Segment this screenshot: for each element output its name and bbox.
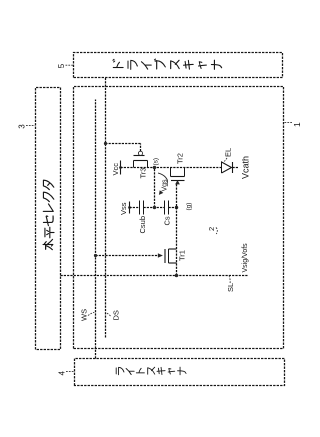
Tr1 gate arrow	[158, 253, 163, 257]
label 1 (pixel array)	[285, 122, 303, 127]
drive scanner text	[113, 59, 222, 69]
Tr3 gate bubble (PMOS)	[138, 151, 142, 155]
Vss terminal bar	[129, 202, 131, 214]
Tr2 gate arrow	[175, 180, 180, 184]
WS leader	[88, 312, 94, 315]
transistor Tr3	[106, 144, 148, 179]
svg-text:4: 4	[58, 371, 67, 376]
Tr3 gate bar	[134, 155, 145, 157]
transistor Tr2 (drive transistor)	[171, 153, 185, 184]
Tr3 channel region	[134, 161, 148, 168]
EL cathode bar	[232, 162, 234, 173]
Vss junction dot	[128, 206, 131, 209]
Tr3 gate lead wire to DS line	[106, 144, 141, 152]
svg-text:Vss: Vss	[119, 202, 128, 215]
svg-text:Tr1: Tr1	[178, 250, 187, 261]
node g wire	[176, 184, 178, 276]
junction WS / Tr1 gate	[94, 254, 97, 257]
label 4 (write scanner)	[58, 371, 74, 376]
label WS (write scan net)	[80, 309, 95, 321]
svg-text:WS: WS	[80, 309, 89, 321]
Vcc junction dot	[119, 166, 122, 169]
svg-text:SL: SL	[226, 283, 235, 292]
svg-text:(g): (g)	[186, 203, 193, 211]
horizontal selector text	[43, 180, 54, 249]
svg-text:Tr2: Tr2	[176, 153, 185, 164]
label 5 (drive scanner)	[57, 63, 73, 68]
EL cathode wire to Vcath	[233, 167, 239, 169]
EL anode triangle	[222, 162, 232, 173]
Vcc terminal bar	[120, 161, 122, 175]
junction g-wire / storage line	[175, 206, 178, 209]
transistor Tr1	[96, 249, 187, 263]
label DS (drive scan net)	[107, 310, 121, 320]
Vgs annotation	[158, 173, 169, 195]
label SL (signal line net)	[226, 276, 235, 292]
drive scanner box 5	[74, 53, 283, 78]
signal line SL	[61, 275, 249, 277]
SL leader	[229, 276, 230, 283]
svg-text:EL: EL	[224, 148, 233, 157]
label 4 leader	[66, 371, 74, 373]
node s junction dot	[153, 166, 156, 169]
horizontal selector box 3	[36, 88, 61, 350]
Cs plates	[165, 201, 169, 215]
Tr1 channel region	[169, 249, 177, 263]
capacitor Cs (storage)	[163, 201, 172, 226]
svg-text:Tr3: Tr3	[139, 168, 148, 179]
svg-text:Vcc: Vcc	[111, 163, 120, 176]
svg-text:2: 2	[207, 227, 216, 231]
EL label leader	[224, 158, 227, 162]
svg-text:Csub: Csub	[138, 216, 147, 234]
Csub plates	[140, 201, 144, 215]
DS leader	[107, 313, 111, 316]
write scanner text	[116, 367, 186, 375]
Vcc power terminal	[111, 161, 122, 176]
power wire from Vcc to EL anode	[121, 167, 222, 169]
write scanner box 4	[75, 359, 285, 386]
label 5 leader	[66, 64, 74, 66]
svg-text:5: 5	[57, 63, 66, 68]
label 3 (horizontal selector)	[18, 124, 36, 129]
svg-text:Vcath: Vcath	[241, 156, 251, 179]
Vss power terminal	[119, 202, 131, 216]
pixel array box 1	[74, 87, 284, 349]
scan line DS	[105, 78, 107, 338]
Tr1 gate bar	[164, 249, 166, 263]
scan line WS	[95, 100, 97, 359]
junction DS / Tr3 gate	[104, 142, 107, 145]
capacitor Csub	[138, 201, 147, 234]
node s wire	[154, 168, 156, 208]
label 2 (pixel circuit)	[207, 227, 217, 234]
svg-text:Cs: Cs	[163, 216, 172, 225]
svg-text:3: 3	[18, 124, 27, 129]
Tr2 channel region	[171, 168, 185, 177]
label 2 leader	[216, 228, 217, 235]
EL element (organic light emitting diode)	[222, 148, 239, 173]
label 1 leader	[285, 122, 293, 124]
svg-text:Vsig/Vofs: Vsig/Vofs	[242, 243, 249, 273]
junction SL / Tr1 source	[175, 274, 178, 277]
Tr1 gate lead wire from WS line	[96, 255, 158, 257]
junction s-wire / storage line	[153, 206, 156, 209]
label 3 leader	[26, 125, 35, 127]
Tr2 gate bar	[171, 180, 185, 182]
storage node wire	[130, 207, 177, 209]
svg-text:DS: DS	[112, 310, 121, 320]
svg-text:(s): (s)	[153, 158, 160, 166]
svg-text:1: 1	[292, 122, 302, 127]
